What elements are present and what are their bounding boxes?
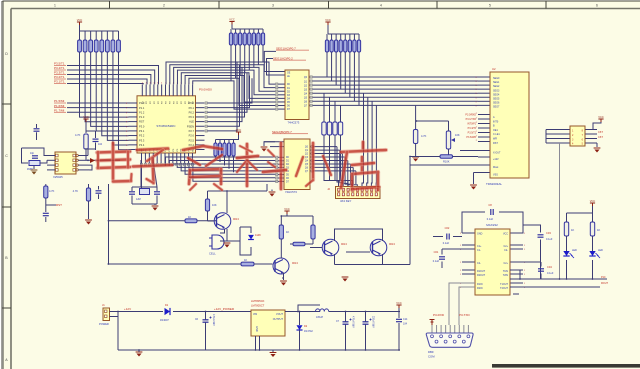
- svg-text:LED: LED: [572, 249, 577, 252]
- svg-text:SEG0: SEG0: [493, 77, 500, 80]
- svg-text:C8: C8: [488, 203, 492, 207]
- svg-text:1: 1: [476, 89, 477, 91]
- svg-text:+12V: +12V: [124, 307, 131, 311]
- svg-text:0.1uF: 0.1uF: [443, 242, 450, 245]
- svg-text:4: 4: [157, 83, 158, 85]
- svg-text:9: 9: [126, 145, 127, 147]
- svg-text:VCC: VCC: [396, 301, 402, 305]
- svg-text:SEG5: SEG5: [493, 98, 500, 101]
- svg-text:104: 104: [98, 143, 103, 146]
- svg-text:1: 1: [460, 270, 461, 272]
- svg-text:5: 5: [489, 4, 491, 8]
- svg-text:VCC: VCC: [236, 128, 242, 132]
- svg-text:1: 1: [524, 270, 525, 272]
- svg-text:POWER: POWER: [99, 322, 109, 326]
- svg-text:VCC: VCC: [83, 115, 89, 119]
- svg-text:10K: 10K: [455, 133, 460, 137]
- svg-text:VCC: VCC: [229, 18, 235, 22]
- svg-text:LM7805CK: LM7805CK: [251, 299, 265, 303]
- svg-text:0.1uF: 0.1uF: [547, 272, 554, 275]
- svg-text:9013: 9013: [389, 242, 395, 246]
- svg-text:C LE1: C LE1: [493, 133, 500, 136]
- svg-text:P3.5/T1: P3.5/T1: [468, 131, 477, 134]
- svg-text:1: 1: [476, 101, 477, 103]
- svg-text:COM: COM: [428, 355, 435, 359]
- svg-text:0.1uF: 0.1uF: [546, 238, 553, 241]
- svg-text:P2.6: P2.6: [189, 134, 195, 138]
- svg-text:SEG2: SEG2: [493, 85, 500, 88]
- svg-text:1: 1: [476, 81, 477, 83]
- svg-text:VOUT: VOUT: [276, 313, 283, 316]
- svg-text:LE: LE: [287, 76, 290, 78]
- svg-text:P3-TXD: P3-TXD: [459, 313, 471, 317]
- svg-text:P10: P10: [601, 276, 606, 279]
- svg-text:SEG4: SEG4: [493, 93, 500, 96]
- svg-text:C02: C02: [445, 226, 450, 230]
- svg-text:1: 1: [476, 93, 477, 95]
- svg-text:4: 4: [153, 83, 154, 85]
- svg-text:12M: 12M: [136, 198, 141, 201]
- svg-text:1: 1: [460, 233, 461, 235]
- svg-text:4: 4: [161, 83, 162, 85]
- svg-text:1: 1: [460, 262, 461, 264]
- svg-text:SEG2(B2)P0.7: SEG2(B2)P0.7: [272, 130, 292, 134]
- svg-text:STC89C52RC: STC89C52RC: [156, 124, 176, 128]
- svg-text:VSS: VSS: [493, 174, 498, 177]
- svg-text:P0.0: P0.0: [189, 101, 195, 105]
- svg-text:R10K: R10K: [443, 160, 450, 164]
- svg-text:GND: GND: [255, 326, 258, 332]
- svg-text:+12V_POWER: +12V_POWER: [214, 307, 235, 311]
- svg-text:4148: 4148: [255, 234, 261, 237]
- svg-text:C: C: [5, 154, 8, 158]
- svg-text:WR: WR: [493, 138, 497, 141]
- svg-text:2: 2: [161, 160, 162, 162]
- svg-text:SEG3: SEG3: [493, 89, 500, 92]
- svg-text:SEG1(A2)P0.7: SEG1(A2)P0.7: [276, 46, 296, 50]
- svg-text:9: 9: [126, 136, 127, 138]
- svg-text:X25045: X25045: [53, 175, 63, 179]
- svg-text:1: 1: [524, 249, 525, 251]
- svg-text:C6T: C6T: [598, 135, 603, 139]
- svg-text:RST: RST: [56, 203, 62, 207]
- svg-text:2: 2: [476, 140, 477, 142]
- svg-text:9: 9: [126, 122, 127, 124]
- svg-text:1: 1: [54, 4, 56, 8]
- svg-text:T2OUT: T2OUT: [500, 287, 508, 290]
- svg-text:10p: 10p: [30, 152, 35, 155]
- svg-text:P3.4/T0: P3.4/T0: [468, 127, 477, 130]
- svg-text:TD62003AL: TD62003AL: [486, 182, 502, 186]
- svg-text:1N4742: 1N4742: [304, 330, 313, 333]
- svg-text:P3.1/T1: P3.1/T1: [54, 80, 65, 84]
- svg-text:2: 2: [163, 4, 165, 8]
- svg-text:VCC: VCC: [77, 18, 83, 22]
- svg-text:P2.7: P2.7: [189, 129, 195, 133]
- svg-text:4X4 KEY: 4X4 KEY: [340, 199, 351, 203]
- svg-text:P1.6/MI: P1.6/MI: [54, 104, 65, 108]
- svg-text:1K: 1K: [286, 230, 289, 234]
- svg-text:P3.0: P3.0: [139, 124, 145, 128]
- svg-text:9: 9: [126, 112, 127, 114]
- svg-text:9013: 9013: [292, 261, 298, 265]
- svg-text:SEG1: SEG1: [493, 81, 500, 84]
- svg-text:P0.1: P0.1: [189, 106, 195, 110]
- svg-text:P3.2: P3.2: [139, 134, 145, 138]
- svg-text:P3.3: P3.3: [139, 138, 145, 142]
- svg-text:SEG7: SEG7: [493, 106, 500, 109]
- svg-text:C1-: C1-: [477, 249, 481, 252]
- svg-text:R2IN: R2IN: [477, 287, 483, 290]
- svg-text:SEG1(A2)P0.2: SEG1(A2)P0.2: [273, 56, 293, 60]
- svg-text:74HC573: 74HC573: [285, 190, 297, 194]
- svg-text:LED: LED: [598, 249, 603, 252]
- svg-text:VIN: VIN: [253, 313, 257, 316]
- svg-text:T1OUT: T1OUT: [500, 283, 508, 286]
- svg-text:P0.2: P0.2: [189, 110, 195, 114]
- svg-text:1N4007: 1N4007: [160, 319, 169, 322]
- svg-text:RST: RST: [493, 142, 498, 145]
- svg-text:3: 3: [272, 4, 274, 8]
- svg-text:P3.4/T1: P3.4/T1: [54, 66, 65, 70]
- svg-text:OE1: OE1: [493, 129, 498, 132]
- svg-text:X-OUT: X-OUT: [493, 152, 501, 155]
- svg-text:C04: C04: [547, 265, 552, 269]
- svg-text:P0.3: P0.3: [189, 115, 195, 119]
- svg-text:1: 1: [524, 233, 525, 235]
- svg-text:6: 6: [596, 4, 598, 8]
- svg-text:SEG6: SEG6: [493, 102, 500, 105]
- svg-text:+12V: +12V: [493, 158, 499, 161]
- svg-text:C01: C01: [434, 250, 439, 254]
- svg-text:4: 4: [142, 83, 143, 85]
- svg-text:9: 9: [126, 108, 127, 110]
- svg-text:P3.3/T1: P3.3/T1: [54, 71, 65, 75]
- svg-text:1K: 1K: [188, 215, 191, 219]
- svg-text:1K: 1K: [571, 228, 574, 232]
- svg-text:0.1uF: 0.1uF: [433, 260, 440, 263]
- svg-text:1K: 1K: [244, 258, 247, 262]
- svg-text:C2+: C2+: [504, 262, 509, 265]
- svg-text:P1.3: P1.3: [139, 115, 145, 119]
- svg-text:INT0: INT0: [493, 120, 499, 123]
- svg-text:INT0/P1: INT0/P1: [467, 122, 476, 125]
- svg-text:4: 4: [380, 4, 382, 8]
- svg-text:4: 4: [146, 83, 147, 85]
- svg-text:P3.6/WR: P3.6/WR: [466, 136, 476, 139]
- svg-text:9: 9: [126, 103, 127, 105]
- svg-text:C1+: C1+: [477, 245, 482, 248]
- svg-text:470uF/16V: 470uF/16V: [212, 314, 215, 326]
- svg-text:0.1uF: 0.1uF: [487, 218, 494, 221]
- svg-text:P3-RXD: P3-RXD: [433, 313, 445, 317]
- svg-text:4.7K: 4.7K: [421, 134, 427, 138]
- svg-text:P3.1/TXD: P3.1/TXD: [466, 118, 477, 121]
- svg-text:1K: 1K: [597, 228, 600, 232]
- svg-text:10K: 10K: [212, 203, 217, 207]
- svg-text:R1IN: R1IN: [477, 283, 483, 286]
- svg-text:470uF/16V: 470uF/16V: [352, 316, 355, 328]
- svg-text:1: 1: [524, 245, 525, 247]
- svg-text:104: 104: [403, 323, 408, 326]
- svg-text:VCC: VCC: [590, 199, 596, 203]
- svg-text:P3.1: P3.1: [139, 129, 145, 133]
- svg-text:OE: OE: [287, 73, 291, 75]
- svg-text:1: 1: [460, 274, 461, 276]
- svg-text:VCC: VCC: [325, 18, 331, 22]
- svg-text:P1.2: P1.2: [139, 110, 145, 114]
- svg-text:GND: GND: [477, 233, 483, 236]
- svg-text:VCC: VCC: [598, 115, 604, 119]
- svg-text:R1OUT: R1OUT: [477, 270, 486, 273]
- svg-text:1: 1: [460, 245, 461, 247]
- svg-text:PSEN: PSEN: [187, 124, 194, 128]
- svg-text:P1.1: P1.1: [139, 106, 145, 110]
- svg-text:1: 1: [476, 105, 477, 107]
- svg-text:1: 1: [524, 274, 525, 276]
- svg-text:Mout: Mout: [493, 166, 499, 169]
- svg-text:ROUT: ROUT: [601, 282, 609, 285]
- svg-text:2: 2: [157, 160, 158, 162]
- svg-text:P1.5/MI: P1.5/MI: [54, 99, 65, 103]
- svg-text:C2+: C2+: [504, 245, 509, 248]
- svg-text:T1IN: T1IN: [503, 270, 508, 273]
- svg-text:4.7K: 4.7K: [75, 133, 81, 137]
- svg-text:VCC: VCC: [503, 233, 508, 236]
- svg-text:9: 9: [126, 117, 127, 119]
- svg-text:P1.7/MI: P1.7/MI: [54, 108, 65, 112]
- svg-text:P3.2/T1: P3.2/T1: [54, 75, 65, 79]
- svg-text:C6T: C6T: [598, 130, 603, 134]
- svg-text:1: 1: [476, 77, 477, 79]
- svg-text:CELL: CELL: [209, 252, 216, 256]
- svg-text:9013: 9013: [233, 217, 239, 221]
- svg-text:C2-: C2-: [477, 262, 481, 265]
- svg-text:C03: C03: [546, 231, 551, 235]
- svg-text:9: 9: [126, 131, 127, 133]
- svg-text:RST: RST: [139, 120, 145, 124]
- svg-text:74HC573: 74HC573: [288, 121, 300, 125]
- svg-text:ALE: ALE: [189, 120, 194, 124]
- svg-text:P1.0: P1.0: [139, 101, 145, 105]
- svg-text:DB9: DB9: [428, 350, 434, 354]
- svg-text:1: 1: [524, 283, 525, 285]
- svg-text:4.7K: 4.7K: [73, 189, 79, 193]
- svg-text:P0.0/AD0: P0.0/AD0: [199, 88, 212, 92]
- svg-text:P3.5/T1: P3.5/T1: [54, 62, 65, 66]
- svg-text:9: 9: [126, 140, 127, 142]
- svg-text:C14: C14: [403, 318, 408, 321]
- svg-text:105uH: 105uH: [316, 316, 323, 319]
- svg-text:MAX232: MAX232: [486, 223, 498, 227]
- svg-text:U2: U2: [492, 67, 496, 71]
- svg-text:VCC: VCC: [284, 207, 290, 211]
- svg-text:P2.5: P2.5: [189, 138, 195, 142]
- svg-text:P3.4: P3.4: [139, 143, 145, 147]
- svg-text:D: D: [5, 52, 8, 56]
- svg-text:R2OUT: R2OUT: [477, 274, 486, 277]
- svg-text:9: 9: [126, 126, 127, 128]
- svg-text:9013: 9013: [341, 242, 347, 246]
- svg-text:4.7K: 4.7K: [49, 189, 55, 193]
- svg-text:1: 1: [476, 85, 477, 87]
- svg-text:OUTPUT: OUTPUT: [273, 318, 284, 321]
- svg-text:C2-: C2-: [504, 249, 508, 252]
- svg-text:P3.0/RXD: P3.0/RXD: [465, 113, 476, 116]
- svg-text:1: 1: [476, 97, 477, 99]
- svg-text:LM7805CT: LM7805CT: [251, 304, 265, 308]
- svg-text:T2IN: T2IN: [503, 274, 508, 277]
- svg-text:4: 4: [150, 83, 151, 85]
- svg-text:220uF/16V: 220uF/16V: [372, 316, 375, 328]
